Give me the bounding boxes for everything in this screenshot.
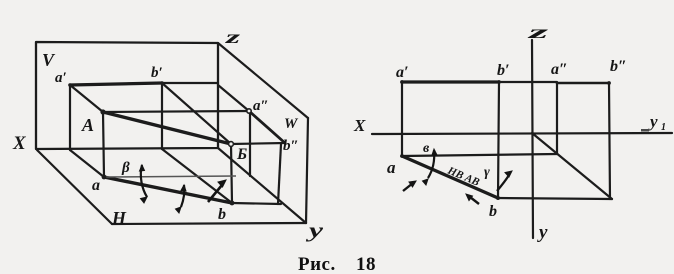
node B: [229, 142, 234, 147]
wire vertical b' to X axis: [161, 83, 163, 149]
axis X (right): [372, 133, 672, 134]
svg-text:b: b: [218, 206, 226, 223]
wire b transfer horizontal: [498, 198, 612, 199]
svg-text:b″: b″: [610, 58, 627, 75]
svg-text:у: у: [537, 222, 548, 243]
plane H bottom edge: [112, 223, 306, 224]
node b' (right): [497, 80, 501, 84]
svg-text:a′: a′: [396, 64, 409, 81]
wire X-foot to a: [70, 150, 104, 177]
node A: [100, 109, 105, 114]
node a' (left): [68, 83, 72, 87]
svg-text:V: V: [42, 50, 56, 70]
wire a" down to Y axis: [249, 111, 251, 176]
svg-text:b: b: [489, 203, 497, 220]
arrow beta (left): [140, 165, 148, 203]
wire ray a' to A: [70, 85, 103, 112]
svg-text:18: 18: [356, 254, 376, 274]
node b' (left): [160, 81, 164, 85]
smudge near y1: [641, 129, 649, 132]
svg-text:A: A: [81, 115, 94, 135]
node a (right): [400, 154, 404, 158]
node b: [230, 201, 235, 206]
wire a"b" projection: [557, 82, 609, 85]
svg-text:у: у: [306, 220, 323, 242]
wire segment ab: [104, 177, 232, 203]
plane H left edge: [37, 150, 112, 224]
svg-text:Б: Б: [236, 146, 247, 163]
wire B down to b: [231, 144, 232, 203]
wire b" down to Y axis: [278, 144, 281, 204]
wire segment a"b": [249, 111, 285, 143]
svg-text:b′: b′: [151, 65, 163, 81]
wire X-foot to b: [162, 149, 232, 203]
svg-text:β: β: [121, 160, 130, 176]
wire vertical a' to X axis: [69, 85, 71, 150]
svg-text:у: у: [648, 112, 658, 131]
node b (right): [496, 196, 500, 200]
node b" (right): [607, 81, 611, 85]
svg-text:a: a: [92, 177, 100, 194]
svg-text:в: в: [423, 141, 430, 156]
node a: [102, 175, 107, 180]
svg-text:Н: Н: [111, 208, 127, 228]
arrow angle v at a (right): [423, 149, 438, 185]
arrow at b diagonal (bold): [208, 180, 226, 202]
wire segment ab (right): [402, 156, 498, 198]
wire b" vertical: [609, 83, 610, 199]
svg-text:a″: a″: [253, 98, 269, 114]
wire a'b' projection: [402, 80, 499, 83]
wire A to a": [103, 111, 249, 112]
wire a" vertical: [556, 83, 558, 154]
arrow tick near a (right): [403, 181, 416, 191]
svg-text:z: z: [224, 27, 240, 47]
wire b' vertical: [498, 82, 499, 198]
wire b' to Z axis: [162, 82, 218, 84]
wire a horizontal (faint): [104, 176, 236, 177]
wire b to Y axis: [232, 203, 281, 204]
node a' (right): [400, 80, 404, 84]
svg-text:z: z: [526, 22, 548, 42]
plane W top edge: [218, 43, 308, 118]
svg-text:γ: γ: [484, 165, 490, 180]
node a": [247, 109, 251, 113]
svg-text:a″: a″: [551, 61, 568, 78]
wire b' to a" construction: [499, 81, 557, 83]
axis Y (fold H/W): [218, 148, 306, 223]
plane W right edge: [306, 118, 308, 223]
wire Z-height to a": [218, 85, 249, 111]
wire a transfer horizontal: [402, 154, 557, 156]
svg-text:a′: a′: [55, 70, 67, 86]
wire ray b' to B: [162, 83, 231, 144]
svg-text:X: X: [12, 133, 27, 154]
svg-text:b′: b′: [497, 62, 510, 79]
arrow gamma at b (right): [497, 171, 512, 191]
plane V outline: [36, 42, 218, 149]
arrow tick near b (right): [466, 194, 479, 204]
wire 45-degree transfer line: [532, 133, 612, 199]
axis Z-Y (right fold): [532, 40, 533, 238]
svg-text:W: W: [284, 116, 299, 132]
svg-text:Рис.: Рис.: [298, 254, 336, 274]
svg-text:b″: b″: [283, 138, 299, 154]
svg-text:a: a: [387, 158, 396, 177]
wire segment AB: [103, 112, 231, 144]
arrow gamma (middle): [176, 185, 187, 213]
wire A down to a: [103, 112, 104, 177]
svg-text:X: X: [353, 116, 366, 135]
wire B to b": [231, 143, 285, 144]
wire a'b' on V: [70, 83, 162, 85]
wire a' vertical: [401, 82, 403, 156]
svg-text:1: 1: [661, 122, 666, 133]
